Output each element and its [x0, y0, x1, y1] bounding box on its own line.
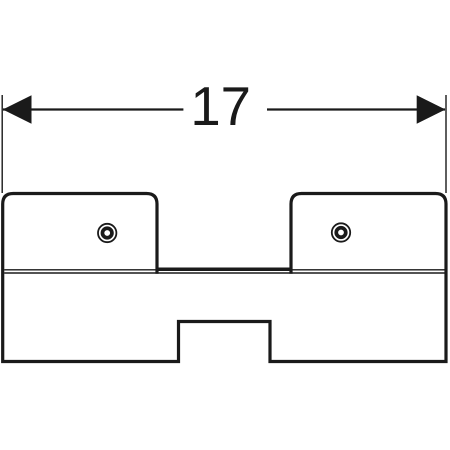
svg-text:17: 17	[190, 76, 251, 137]
